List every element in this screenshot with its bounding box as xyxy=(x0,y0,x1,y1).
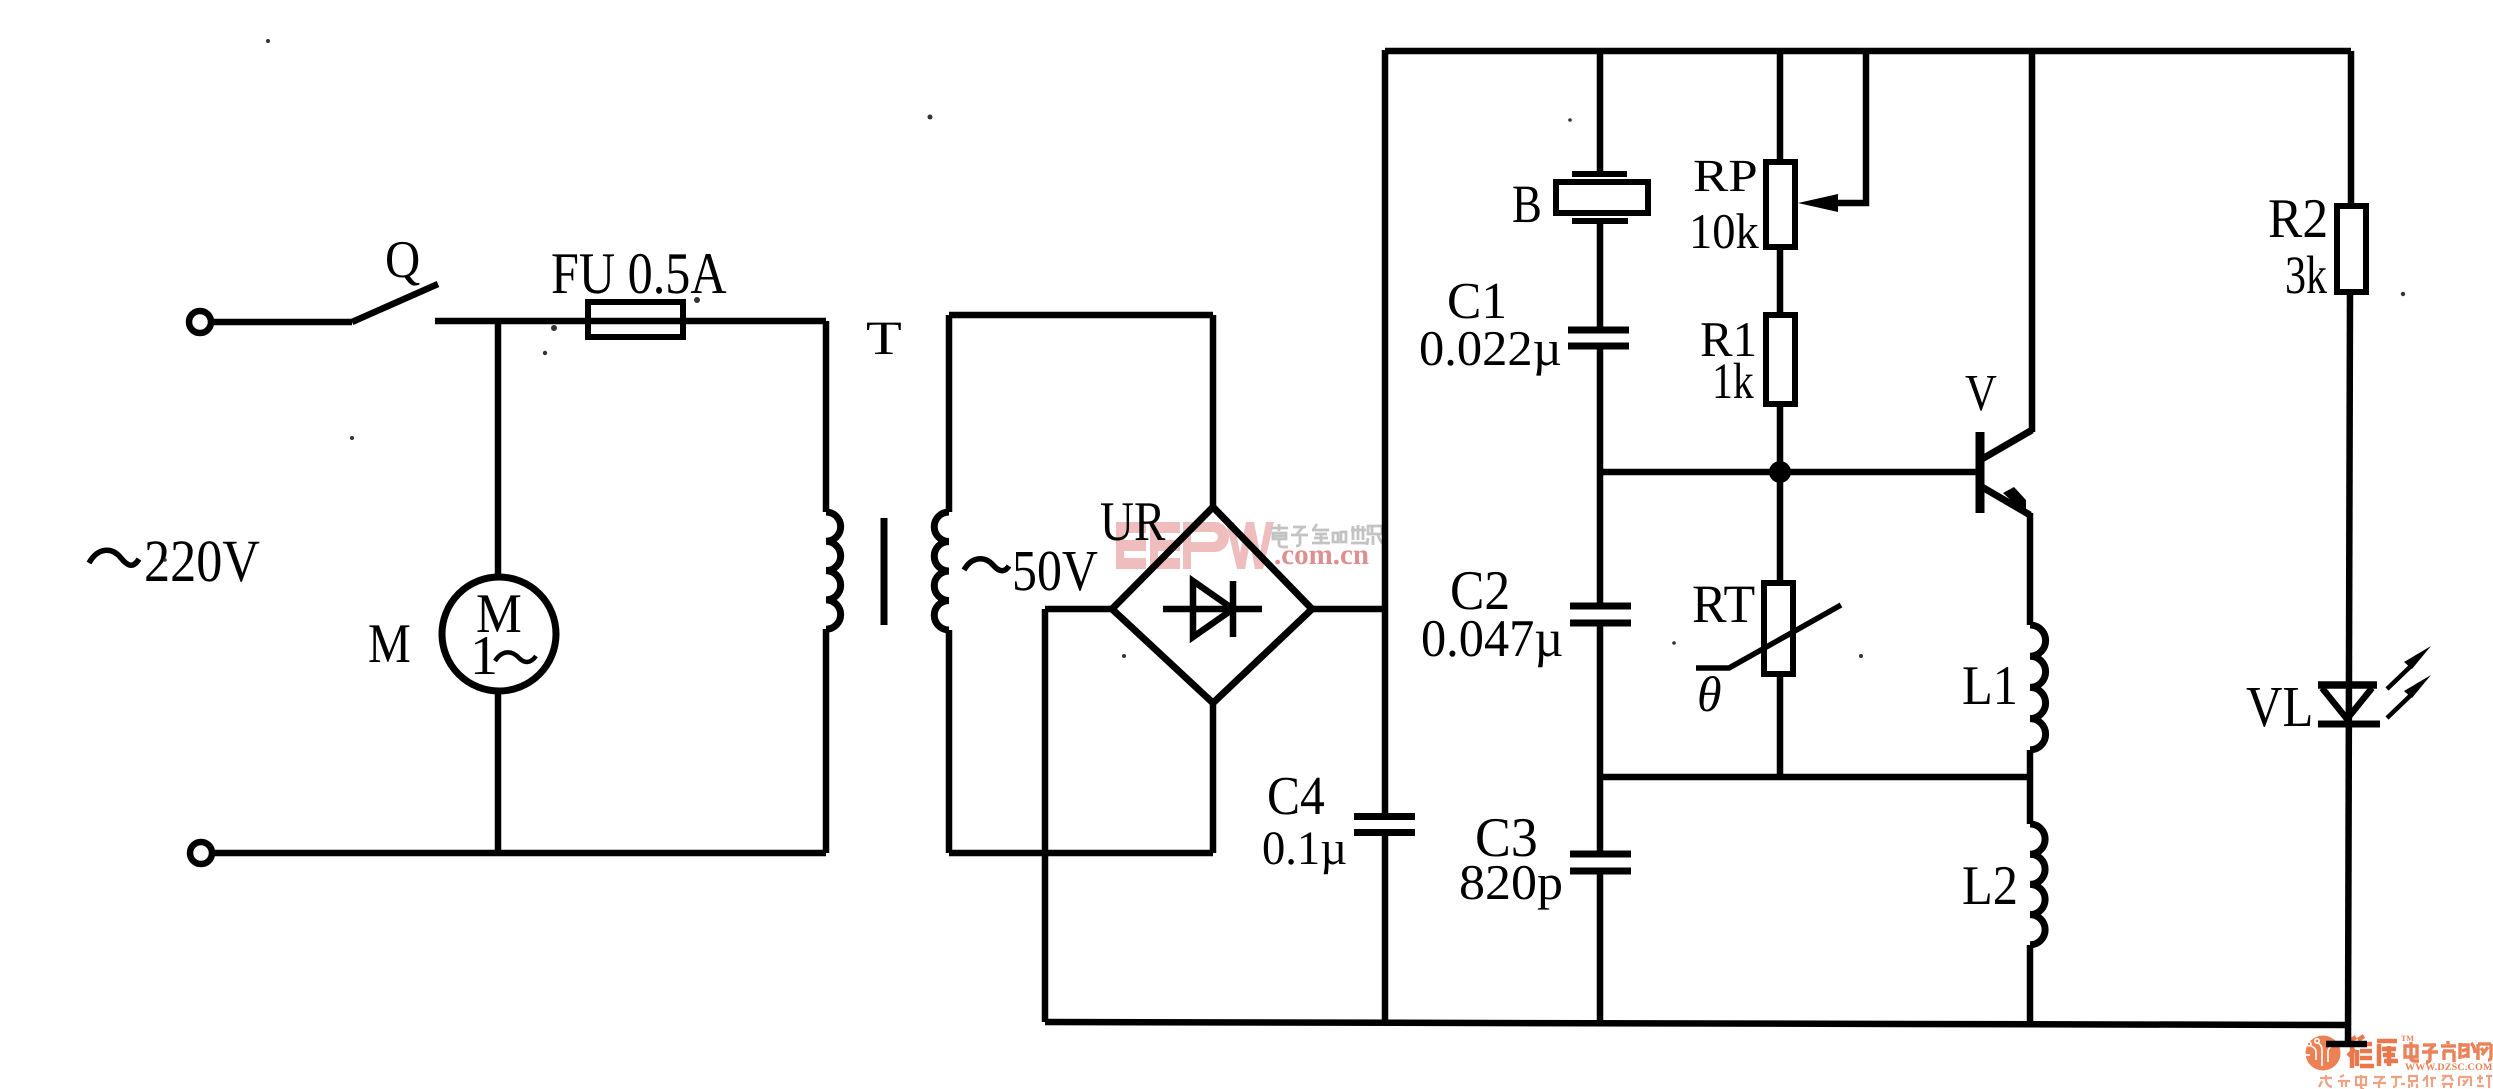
svg-text:1: 1 xyxy=(470,625,498,687)
svg-text:UR: UR xyxy=(1100,491,1166,553)
svg-text:WWW.DZSC.COM: WWW.DZSC.COM xyxy=(2405,1062,2493,1073)
RP wiper arrowhead xyxy=(1798,194,1838,212)
switch Q blade xyxy=(352,284,438,322)
svg-text:1k: 1k xyxy=(1712,354,1754,410)
bridge diode triangle xyxy=(1193,581,1233,637)
wm gray hanzi 電子産品世界 xyxy=(1271,524,1383,547)
inductor L1 winding xyxy=(2030,625,2046,750)
svg-text:820p: 820p xyxy=(1459,854,1563,910)
scan specks xyxy=(163,39,2405,658)
svg-text:L2: L2 xyxy=(1962,855,2018,917)
wire motor bottom xyxy=(495,691,502,853)
label 50V tilde xyxy=(964,559,1009,571)
transistor V emitter arrowhead xyxy=(2003,487,2026,514)
capacitor C3 xyxy=(1570,851,1631,858)
wm letter E2 xyxy=(1150,522,1180,569)
svg-text:M: M xyxy=(368,613,411,675)
RP wiper wire xyxy=(1832,50,1866,203)
wire C1 to C2 xyxy=(1597,346,1604,606)
wire RP to R1 xyxy=(1777,247,1784,315)
svg-text:TM: TM xyxy=(2401,1034,2414,1043)
wire secondary top rail xyxy=(949,312,1213,319)
wire motor top xyxy=(495,321,502,578)
wire bottom ground rail xyxy=(1045,1022,2350,1025)
wire secondary bottom rail xyxy=(949,850,1213,857)
wire right edge upper xyxy=(2348,51,2355,206)
wire C3 to bottom rail xyxy=(1597,871,1604,1022)
wire top rail xyxy=(1385,48,2351,55)
wire buzzer branch top xyxy=(1597,50,1604,174)
wire switch to transformer primary top xyxy=(435,318,826,325)
wire bridge left corner to ground branch xyxy=(1045,606,1112,613)
svg-text:R2: R2 xyxy=(2268,188,2328,250)
terminal bottom-left xyxy=(190,842,212,864)
resistor R2 xyxy=(2337,206,2366,292)
terminal top-left xyxy=(189,311,211,333)
LED VL top bar xyxy=(2318,681,2377,689)
svg-text:0.047µ: 0.047µ xyxy=(1421,610,1563,668)
wire mid rail xyxy=(1600,774,2030,781)
bridge diode cathode bar xyxy=(1230,581,1237,637)
svg-text:T: T xyxy=(866,312,902,365)
svg-text:220V: 220V xyxy=(144,528,260,594)
wire bridge bottom lead xyxy=(1210,700,1217,853)
wm hanzi wei xyxy=(2348,1036,2374,1068)
capacitor C2 xyxy=(1570,603,1631,610)
inductor L2 winding xyxy=(2030,824,2045,945)
wire bottom-left rail xyxy=(212,850,826,857)
thermistor RT xyxy=(1764,583,1793,674)
wire bridge right corner to box xyxy=(1312,606,1385,613)
wm hanzi chang xyxy=(2460,1043,2475,1059)
thermistor RT diagonal xyxy=(1696,605,1841,668)
transformer T primary wire top xyxy=(823,321,830,512)
wm hanzi dian xyxy=(2405,1042,2419,1061)
transformer T secondary winding xyxy=(934,512,949,630)
wire bridge top lead xyxy=(1210,315,1217,510)
buzzer B body xyxy=(1556,182,1648,213)
wm hanzi zi xyxy=(2422,1045,2438,1062)
svg-text:VL: VL xyxy=(2246,674,2313,739)
svg-text:.com.cn: .com.cn xyxy=(1274,539,1369,571)
buzzer B top plate xyxy=(1572,171,1627,177)
svg-text:RT: RT xyxy=(1692,574,1755,634)
watermark EEPW xyxy=(1116,522,1383,571)
svg-text:10k: 10k xyxy=(1689,203,1759,259)
wire B to C1 xyxy=(1597,221,1604,330)
transistor V base bar xyxy=(1976,432,1985,513)
LED VL light arrow 1 xyxy=(2387,666,2411,689)
svg-text:Q: Q xyxy=(385,231,420,289)
node junction dot xyxy=(1769,461,1791,483)
label 220V tilde xyxy=(89,550,139,565)
transformer secondary wire bottom xyxy=(946,630,953,853)
motor tilde xyxy=(495,652,536,662)
transformer core xyxy=(881,518,888,625)
capacitor C1 xyxy=(1568,327,1629,334)
transformer secondary wire top xyxy=(946,315,953,512)
svg-text:50V: 50V xyxy=(1012,538,1098,603)
svg-text:L1: L1 xyxy=(1962,655,2018,717)
wire RP branch top xyxy=(1777,50,1784,162)
wire top-left to switch xyxy=(211,319,352,326)
wire emitter down xyxy=(2027,513,2034,625)
wm hanzi ku xyxy=(2377,1041,2398,1066)
svg-text:3k: 3k xyxy=(2285,245,2327,305)
svg-text:FU 0.5A: FU 0.5A xyxy=(551,240,727,306)
wire R1 to node xyxy=(1777,404,1784,472)
svg-text:0.022µ: 0.022µ xyxy=(1419,320,1562,376)
wm hanzi shi xyxy=(2441,1041,2456,1062)
LED VL light arrow 2 xyxy=(2387,695,2411,718)
LED VL cathode bar xyxy=(2318,721,2380,728)
end bar artifact xyxy=(2326,1041,2367,1048)
wm hanzi wang xyxy=(2478,1044,2491,1060)
wm letter W xyxy=(1226,522,1274,569)
motor M circle xyxy=(442,577,556,691)
potentiometer RP xyxy=(1766,162,1795,247)
wm letter P xyxy=(1183,522,1229,569)
wire right edge middle through LED xyxy=(2348,292,2350,1044)
wire box left edge upper xyxy=(1382,50,1389,816)
wire base xyxy=(1600,469,1977,476)
capacitor C4 xyxy=(1354,813,1415,820)
transformer T primary winding xyxy=(826,512,841,629)
svg-text:RP: RP xyxy=(1693,150,1758,201)
wire collector up xyxy=(2029,50,2036,432)
LED VL triangle xyxy=(2322,688,2372,719)
bridge diode line xyxy=(1163,606,1262,613)
svg-text:0.1µ: 0.1µ xyxy=(1262,822,1347,875)
wire box left edge lower xyxy=(1382,833,1389,1022)
watermark weiku xyxy=(2302,1034,2493,1089)
wire ground branch vertical xyxy=(1042,609,1049,1022)
transistor V collector xyxy=(1982,430,2032,459)
fuse FU xyxy=(588,302,683,337)
svg-text:C4: C4 xyxy=(1267,765,1325,826)
resistor R1 xyxy=(1766,315,1795,404)
wm footer hanzi row xyxy=(2319,1075,2332,1087)
buzzer B bottom plate xyxy=(1572,218,1628,224)
wm letter E1 xyxy=(1116,522,1146,569)
svg-text:θ: θ xyxy=(1697,666,1722,722)
wire node to RT xyxy=(1777,472,1784,583)
wire C2 to C3 xyxy=(1597,623,1604,854)
transistor V emitter xyxy=(1982,487,2030,515)
svg-text:B: B xyxy=(1512,174,1542,234)
bridge rectifier UR diamond xyxy=(1112,507,1312,703)
wire L1 to mid rail xyxy=(2027,750,2034,824)
transformer T primary wire bottom xyxy=(823,629,830,853)
svg-text:V: V xyxy=(1965,365,1997,422)
wire RT to mid rail xyxy=(1777,674,1784,777)
wire L2 to bottom rail xyxy=(2027,945,2034,1022)
